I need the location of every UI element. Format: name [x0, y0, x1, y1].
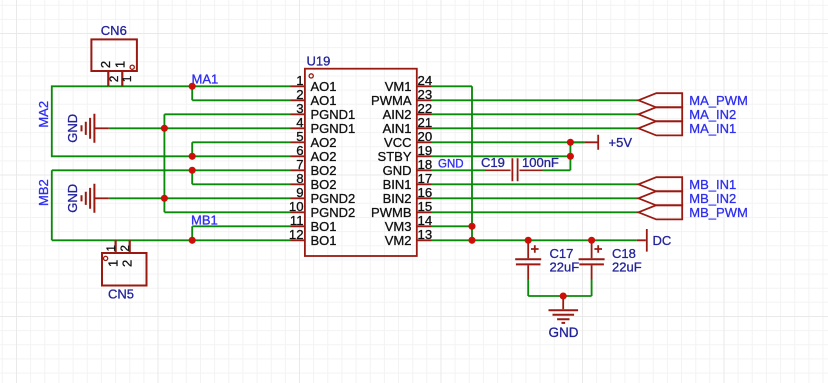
svg-text:AIN1: AIN1 — [383, 121, 412, 136]
svg-text:MA2: MA2 — [36, 101, 51, 128]
svg-text:MA_IN2: MA_IN2 — [689, 107, 736, 122]
port flag MA_PWM — [638, 93, 682, 107]
svg-text:5: 5 — [296, 129, 303, 144]
node MA2 label — [36, 101, 51, 128]
svg-text:10: 10 — [289, 199, 304, 214]
ground symbol GND3 (filter caps) — [549, 296, 579, 323]
U19 left pin stubs 1-12 — [291, 86, 305, 240]
junction MB2 — [189, 167, 196, 174]
junction VM2 — [468, 237, 475, 244]
svg-text:MA1: MA1 — [192, 72, 219, 87]
C18 name label — [612, 246, 636, 261]
svg-text:17: 17 — [418, 171, 433, 186]
C19 value label — [522, 155, 559, 170]
svg-text:15: 15 — [418, 199, 433, 214]
DC net label — [653, 233, 672, 248]
svg-text:19: 19 — [418, 143, 433, 158]
svg-text:2: 2 — [98, 61, 113, 68]
port flag MB_IN1 — [638, 177, 682, 191]
svg-text:PGND2: PGND2 — [311, 205, 356, 220]
svg-text:22uF: 22uF — [612, 260, 642, 275]
svg-text:GND: GND — [549, 325, 579, 340]
svg-text:13: 13 — [418, 227, 433, 242]
svg-text:20: 20 — [418, 129, 433, 144]
svg-text:22uF: 22uF — [550, 260, 580, 275]
U19 left pin numbers 1-12 — [289, 73, 304, 242]
U19 pin-1 marker — [309, 74, 313, 78]
svg-text:2: 2 — [120, 260, 135, 267]
svg-text:23: 23 — [418, 87, 433, 102]
wire net MB_IN2 (pin 16) — [432, 197, 639, 199]
svg-text:AO1: AO1 — [311, 93, 337, 108]
svg-text:BO1: BO1 — [311, 219, 337, 234]
svg-text:1: 1 — [106, 245, 118, 251]
svg-text:AO2: AO2 — [311, 135, 337, 150]
svg-text:BO1: BO1 — [311, 233, 337, 248]
node MA1 label — [192, 72, 219, 87]
C18 value label — [612, 260, 642, 275]
wire net MA1 (CN6.1 to U19 pins 1,2) — [108, 86, 290, 100]
svg-text:2: 2 — [296, 87, 303, 102]
svg-text:1: 1 — [122, 76, 134, 82]
op-amp U19 body (TB6612 driver box) — [305, 69, 417, 256]
svg-text:1: 1 — [113, 61, 128, 68]
wire net VM (U19 pins 24,14,13 to DC) — [432, 86, 637, 240]
svg-text:MB2: MB2 — [36, 179, 51, 206]
svg-text:+5V: +5V — [609, 135, 633, 150]
svg-text:1: 1 — [296, 73, 303, 88]
wire net PGND1 (GND to U19 pins 3,4) — [109, 114, 291, 212]
ground symbol GND1 (net PGND1) — [82, 114, 109, 143]
svg-text:24: 24 — [418, 73, 433, 88]
MB_IN1 net label — [689, 177, 736, 192]
svg-text:9: 9 — [296, 185, 303, 200]
svg-text:7: 7 — [296, 157, 303, 172]
C19 name label — [481, 155, 505, 170]
svg-text:100nF: 100nF — [522, 155, 559, 170]
CN5 pin-1 marker — [104, 256, 108, 260]
svg-text:MA_PWM: MA_PWM — [689, 93, 748, 108]
MA_PWM net label — [689, 93, 748, 108]
wire net MB_IN1 (pin 17) — [432, 183, 639, 185]
svg-text:AIN2: AIN2 — [383, 107, 412, 122]
svg-text:4: 4 — [296, 115, 303, 130]
junction PGND2 — [161, 195, 168, 202]
CN6 inner pad names — [98, 61, 127, 68]
node MB1 label — [191, 213, 218, 228]
svg-text:12: 12 — [289, 227, 304, 242]
CN5 reference label — [108, 287, 134, 302]
MA_IN2 net label — [689, 107, 736, 122]
MA_IN1 net label — [689, 121, 736, 136]
svg-text:CN5: CN5 — [108, 287, 134, 302]
svg-text:PGND1: PGND1 — [311, 107, 356, 122]
port flag MA_IN1 — [638, 121, 682, 135]
svg-text:MB1: MB1 — [191, 213, 218, 228]
wire net MB2 (CN5 to U19 pins 7,8) — [52, 170, 291, 240]
wire net MA_IN2 (pin 22) — [432, 113, 639, 115]
svg-text:BO2: BO2 — [311, 177, 337, 192]
wire net MA_PWM (pin 23) — [432, 99, 639, 101]
svg-text:16: 16 — [418, 185, 433, 200]
wire net MA_IN1 (pin 21) — [432, 127, 639, 129]
svg-text:MB_IN1: MB_IN1 — [689, 177, 736, 192]
connector CN6 body — [91, 39, 136, 71]
svg-text:GND: GND — [65, 114, 80, 143]
wire capacitor ground bus — [528, 279, 591, 296]
MB_IN2 net label — [689, 191, 736, 206]
junction MB1 — [189, 237, 196, 244]
svg-text:C19: C19 — [481, 155, 505, 170]
svg-text:1: 1 — [106, 260, 121, 267]
svg-text:18: 18 — [418, 157, 433, 172]
svg-text:14: 14 — [418, 213, 433, 228]
junction VM3 — [468, 223, 475, 230]
svg-text:STBY: STBY — [378, 149, 412, 164]
svg-text:PGND2: PGND2 — [311, 191, 356, 206]
junction MA2 — [189, 153, 196, 160]
svg-text:PWMB: PWMB — [371, 205, 411, 220]
capacitor C19 — [485, 158, 542, 181]
U19 right pin stubs 24-13 — [417, 86, 432, 240]
CN5 inner pad names — [106, 260, 135, 267]
svg-text:PGND1: PGND1 — [311, 121, 356, 136]
connector CN5 body — [102, 253, 147, 286]
U19 right pin numbers 24-13 — [418, 73, 433, 242]
U19 reference label — [307, 53, 331, 68]
CN6 pin numbers — [109, 76, 134, 82]
svg-text:6: 6 — [296, 143, 303, 158]
svg-text:BIN1: BIN1 — [383, 177, 412, 192]
junction +5V VCC — [567, 139, 574, 146]
svg-text:8: 8 — [296, 171, 303, 186]
power flag +5V — [570, 135, 598, 150]
svg-text:MA_IN1: MA_IN1 — [689, 121, 736, 136]
CN5 pin numbers — [106, 245, 132, 251]
svg-text:DC: DC — [653, 233, 672, 248]
svg-text:2: 2 — [109, 76, 121, 82]
wire net +5V (pins 20,19, C19) — [432, 142, 585, 170]
svg-text:MB_PWM: MB_PWM — [689, 205, 748, 220]
junction C17 top — [525, 237, 532, 244]
U19 right pin names — [371, 79, 412, 248]
svg-text:VM2: VM2 — [385, 233, 412, 248]
MB_PWM net label — [689, 205, 748, 220]
svg-text:VCC: VCC — [384, 135, 411, 150]
svg-text:2: 2 — [120, 245, 132, 251]
connector CN5 pins — [116, 240, 130, 253]
svg-text:GND: GND — [383, 163, 412, 178]
junction cap GND — [560, 292, 567, 299]
svg-text:21: 21 — [418, 115, 433, 130]
power flag DC — [637, 229, 647, 252]
node MB2 label — [36, 179, 51, 206]
port flag MA_IN2 — [638, 107, 682, 121]
junction MA1 — [189, 83, 196, 90]
svg-text:U19: U19 — [307, 53, 331, 68]
C17 name label — [550, 246, 574, 261]
C17 value label — [550, 260, 580, 275]
connector CN6 pins — [108, 71, 122, 86]
svg-text:VM3: VM3 — [385, 219, 412, 234]
wire net MB_PWM (pin 15) — [432, 211, 639, 213]
svg-text:BIN2: BIN2 — [383, 191, 412, 206]
svg-text:AO1: AO1 — [311, 79, 337, 94]
junction C18 top — [588, 237, 595, 244]
CN6 reference label — [101, 23, 127, 38]
svg-text:CN6: CN6 — [101, 23, 127, 38]
svg-text:11: 11 — [290, 213, 304, 228]
+5V net label — [609, 135, 633, 150]
svg-text:GND: GND — [438, 159, 464, 171]
svg-text:BO2: BO2 — [311, 163, 337, 178]
port flag MB_PWM — [638, 205, 682, 219]
svg-text:GND: GND — [65, 184, 80, 213]
svg-text:PWMA: PWMA — [371, 93, 412, 108]
wire net PGND2 (GND to U19 pins 9,10) — [109, 198, 291, 212]
GND1 net label — [65, 114, 80, 143]
svg-text:22: 22 — [418, 101, 433, 116]
capacitor C18 (polarized) — [579, 240, 605, 279]
port flag MB_IN2 — [638, 191, 682, 205]
GND3 net label — [549, 325, 579, 340]
svg-text:3: 3 — [296, 101, 303, 116]
svg-text:VM1: VM1 — [385, 79, 412, 94]
GND2 net label — [65, 184, 80, 213]
CN6 pin-1 marker — [130, 65, 134, 69]
wire net MB1 (CN5 to U19 pins 11,12) — [52, 226, 291, 240]
wire net MA2 (CN6.2 to U19 pins 5,6) — [52, 86, 291, 156]
junction PGND1 — [161, 125, 168, 132]
U19 left pin names — [311, 79, 356, 248]
svg-text:AO2: AO2 — [311, 149, 337, 164]
wire net GND at pin 18 — [432, 169, 486, 171]
ground symbol GND2 (net PGND2) — [82, 184, 109, 213]
svg-text:MB_IN2: MB_IN2 — [689, 191, 736, 206]
node GND label at pin 18 — [438, 159, 464, 171]
capacitor C17 (polarized) — [515, 240, 541, 279]
junction STBY — [567, 153, 574, 160]
